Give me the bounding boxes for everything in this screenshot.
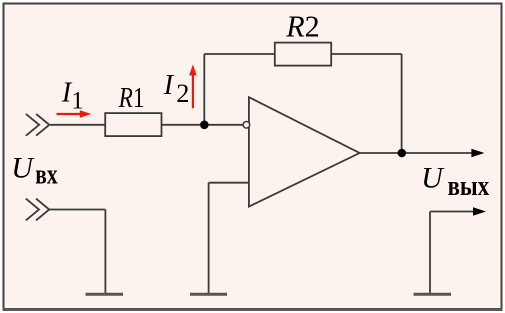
svg-text:2: 2 <box>176 79 189 108</box>
resistor R2 <box>275 43 331 66</box>
ground 3 (output) <box>414 293 452 296</box>
svg-text:вх: вх <box>35 159 57 190</box>
current arrow I1 <box>57 110 92 118</box>
svg-text:1: 1 <box>71 88 84 115</box>
svg-text:I: I <box>163 70 175 101</box>
wire: U_vx chevron horizontal <box>49 209 106 211</box>
ground 1 (U_vx) <box>86 293 124 296</box>
node A (junction at inverting input) <box>200 121 209 130</box>
wire: output arrow shaft <box>402 152 472 154</box>
wire: non-inverting input horizontal <box>209 182 249 184</box>
wire: U_vx vertical to ground <box>104 210 106 294</box>
input chevron (signal in) <box>26 114 49 136</box>
wire: lower output arrow shaft <box>430 211 474 213</box>
wire: input chevron to R1 <box>50 124 105 126</box>
wire: R1 to inverting input circle <box>162 124 244 126</box>
lower output arrowhead <box>473 207 486 215</box>
wire: feedback right vertical down to output <box>401 54 403 153</box>
input chevron (U_vx) <box>26 199 49 221</box>
wire: lower output vertical to ground <box>429 212 431 294</box>
output arrowhead <box>471 149 484 157</box>
svg-text:R2: R2 <box>285 10 319 44</box>
resistor R1 <box>105 113 161 136</box>
wire: feedback right horizontal <box>331 53 401 55</box>
wire: non-inverting input vertical to ground <box>208 183 210 294</box>
current arrow I2 <box>189 64 197 108</box>
svg-text:R1: R1 <box>118 82 145 114</box>
svg-text:вых: вых <box>448 171 490 202</box>
wire: op-amp output to node B <box>360 152 402 154</box>
ground 2 (op-amp +) <box>190 293 227 296</box>
op-amp U1 <box>249 97 360 206</box>
node B (output junction) <box>398 149 407 158</box>
svg-text:U: U <box>11 152 35 185</box>
op-amp inverting input circle <box>243 122 250 129</box>
bottom border thick line <box>3 308 503 311</box>
wire: node A up to feedback line <box>203 54 205 125</box>
svg-text:U: U <box>421 162 445 195</box>
wire: feedback left horizontal <box>204 53 274 55</box>
